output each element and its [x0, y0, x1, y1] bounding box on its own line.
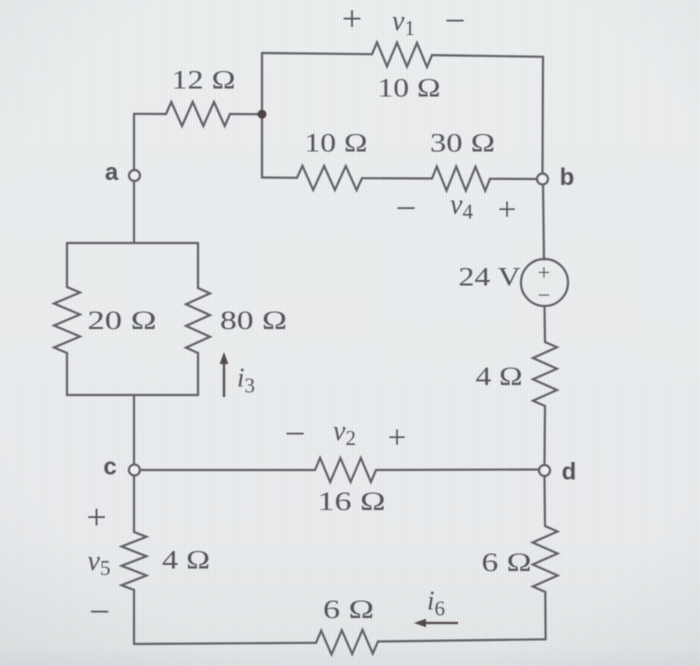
svg-text:+: + — [538, 260, 550, 285]
wire: bottom rail right segment — [378, 639, 546, 641]
svg-text:4 Ω: 4 Ω — [476, 362, 523, 391]
resistor 4 ohm (right) — [533, 342, 557, 406]
resistor 10 ohm (middle) — [297, 166, 362, 190]
svg-text:v1: v1 — [392, 6, 415, 40]
resistor 16 ohm — [315, 458, 376, 482]
wire: node a upper stub — [133, 114, 135, 170]
node d terminal circle — [539, 465, 550, 476]
resistor 20 ohm — [54, 287, 80, 353]
svg-text:i6: i6 — [427, 586, 445, 621]
wire: bottom rail left segment — [134, 643, 316, 644]
wire: parallel block to node c — [133, 395, 135, 465]
svg-text:30 Ω: 30 Ω — [430, 129, 495, 158]
svg-text:16 Ω: 16 Ω — [318, 487, 386, 516]
svg-text:+: + — [342, 0, 362, 39]
wire: bottom rail up to v5 resistor — [133, 590, 135, 644]
wire: top loop upper-right segment — [432, 55, 543, 57]
resistor 80 ohm — [186, 288, 210, 353]
svg-text:−: − — [396, 189, 417, 230]
svg-text:d: d — [562, 459, 577, 486]
current arrow i3 — [223, 362, 225, 397]
wire: v5 resistor to node c — [133, 476, 135, 533]
wire: 12 ohm left stub — [134, 113, 166, 115]
parallel block bottom edge wire — [67, 394, 198, 396]
svg-text:+: + — [498, 192, 517, 228]
wire: top loop left vertical — [261, 53, 263, 178]
resistor 10 ohm (v1, top) — [372, 42, 432, 67]
wire: 6 ohm right to bottom rail — [544, 592, 546, 639]
svg-text:−: − — [89, 592, 110, 633]
wire: middle row into node b — [490, 178, 537, 180]
node b terminal circle — [537, 174, 548, 185]
wire: top loop right vertical down to node b — [541, 57, 544, 174]
svg-text:v2: v2 — [333, 416, 356, 450]
resistor 4 ohm (v5) — [122, 532, 147, 590]
svg-text:20 Ω: 20 Ω — [88, 306, 157, 335]
svg-text:−: − — [285, 414, 306, 455]
wire: node d to 6 ohm right — [543, 477, 546, 527]
wire: 80 ohm upper lead — [197, 243, 199, 288]
wire: 16 ohm to node d — [376, 468, 539, 471]
current arrow i6 — [424, 622, 458, 624]
svg-text:6 Ω: 6 Ω — [482, 548, 532, 577]
wire: middle row left segment — [262, 176, 297, 179]
resistor 6 ohm (right) — [533, 526, 558, 592]
wire: middle row between 10 and 30 ohm — [362, 177, 432, 180]
svg-text:12 Ω: 12 Ω — [172, 66, 236, 95]
voltage source 24 V circle — [521, 259, 568, 306]
svg-text:a: a — [105, 159, 119, 186]
svg-text:b: b — [560, 164, 575, 191]
wire: source to 4 ohm resistor — [543, 306, 546, 342]
wire: node c to 16 ohm — [140, 469, 315, 471]
node c terminal circle — [129, 465, 140, 476]
wire: 4 ohm to node d — [543, 406, 546, 465]
svg-text:80 Ω: 80 Ω — [220, 306, 287, 335]
svg-text:10 Ω: 10 Ω — [305, 129, 368, 158]
svg-text:v4: v4 — [450, 190, 473, 224]
wire: node b to 24V source — [543, 185, 544, 260]
wire: 20 ohm upper lead — [66, 243, 68, 287]
node a terminal circle — [129, 170, 140, 181]
svg-text:v5: v5 — [88, 546, 111, 580]
resistor 6 ohm (bottom) — [316, 630, 378, 655]
svg-text:6 Ω: 6 Ω — [323, 595, 374, 624]
resistor R 12 ohm — [166, 102, 230, 126]
svg-text:−: − — [538, 283, 550, 308]
wire: 20 ohm lower lead — [66, 353, 68, 395]
svg-text:i3: i3 — [237, 363, 255, 398]
svg-text:4 Ω: 4 Ω — [162, 546, 210, 575]
resistor 30 ohm — [432, 167, 490, 191]
wire: top loop upper-left segment — [262, 53, 372, 54]
junction dot at 12 ohm / top loop — [258, 110, 267, 119]
wire: 80 ohm lower lead — [197, 353, 199, 395]
svg-text:−: − — [445, 1, 466, 42]
svg-text:+: + — [86, 497, 106, 537]
svg-text:24 V: 24 V — [459, 263, 521, 292]
wire: node a to parallel block top — [133, 181, 135, 243]
svg-text:c: c — [103, 454, 116, 481]
wire: 12 ohm right stub — [230, 113, 262, 115]
svg-text:10 Ω: 10 Ω — [378, 74, 441, 103]
svg-text:+: + — [388, 420, 407, 456]
parallel block top edge wire — [67, 242, 198, 244]
